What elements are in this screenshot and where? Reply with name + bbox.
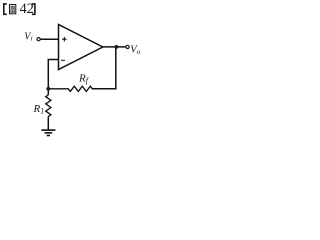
svg-text:Vi: Vi [24,31,32,42]
svg-text:42: 42 [20,1,34,17]
svg-text:Vo: Vo [130,45,140,56]
